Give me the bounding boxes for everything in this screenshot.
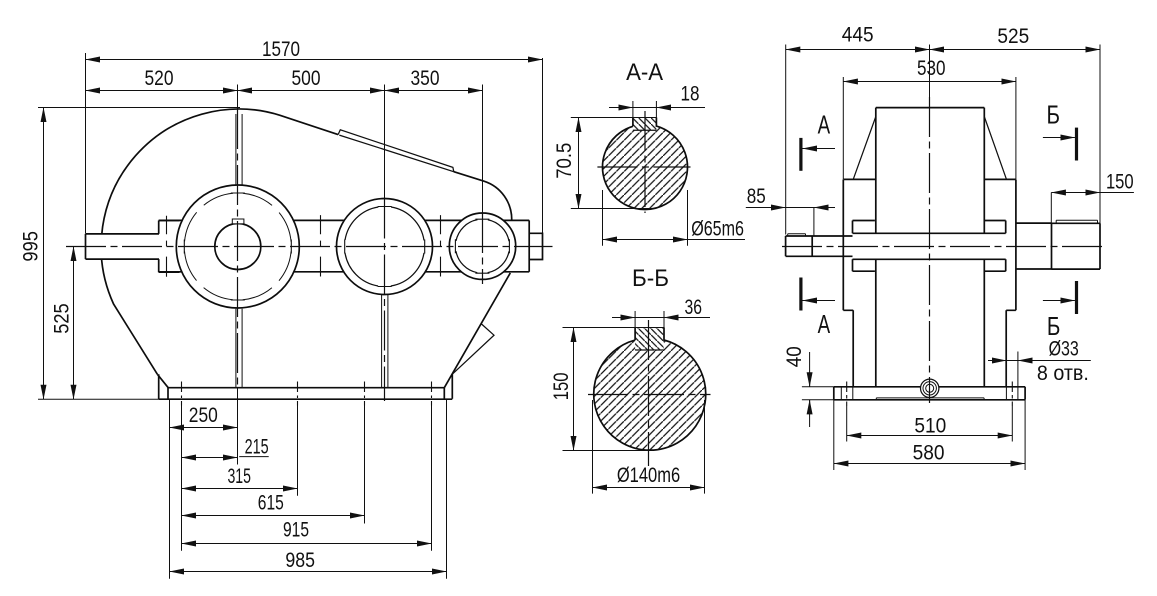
svg-text:А: А (818, 110, 831, 140)
svg-text:915: 915 (283, 517, 309, 541)
svg-text:580: 580 (913, 441, 945, 465)
svg-text:525: 525 (997, 24, 1029, 48)
svg-text:1570: 1570 (262, 37, 300, 61)
svg-text:985: 985 (285, 548, 315, 572)
svg-text:Б-Б: Б-Б (632, 265, 669, 292)
svg-text:А-А: А-А (626, 59, 663, 86)
svg-text:8 отв.: 8 отв. (1037, 361, 1089, 385)
svg-text:350: 350 (411, 66, 440, 90)
svg-text:40: 40 (782, 346, 806, 367)
svg-text:995: 995 (19, 231, 43, 262)
svg-text:530: 530 (917, 56, 946, 80)
svg-text:70.5: 70.5 (552, 143, 576, 179)
svg-text:А: А (818, 309, 831, 339)
svg-text:520: 520 (145, 66, 174, 90)
svg-text:250: 250 (189, 403, 218, 427)
svg-text:445: 445 (842, 23, 874, 47)
svg-text:150: 150 (549, 372, 573, 400)
svg-text:85: 85 (747, 184, 766, 208)
svg-text:615: 615 (258, 490, 284, 514)
svg-text:Б: Б (1047, 311, 1061, 341)
svg-text:525: 525 (50, 303, 74, 334)
svg-text:Ø140m6: Ø140m6 (617, 463, 680, 487)
svg-text:Ø65m6: Ø65m6 (691, 217, 744, 241)
svg-text:500: 500 (292, 66, 321, 90)
svg-text:18: 18 (681, 81, 700, 105)
svg-text:510: 510 (914, 413, 946, 437)
svg-text:215: 215 (245, 435, 269, 459)
svg-text:Б: Б (1047, 99, 1061, 129)
svg-text:315: 315 (227, 464, 251, 488)
svg-text:150: 150 (1106, 169, 1134, 193)
svg-text:36: 36 (684, 295, 702, 319)
